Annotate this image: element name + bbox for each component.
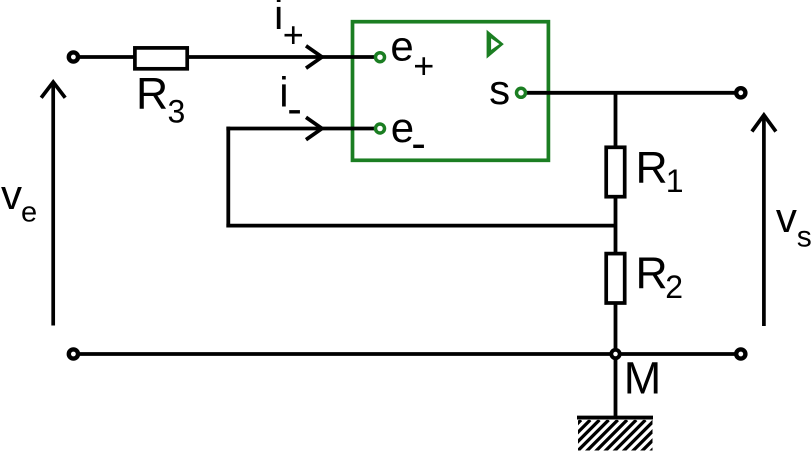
wire bottom rail	[73, 352, 740, 356]
svg-text:3: 3	[168, 93, 186, 129]
terminal output top	[736, 88, 745, 97]
resistor R3	[135, 48, 187, 69]
svg-text:+: +	[413, 45, 434, 86]
terminal input top	[69, 52, 78, 61]
arrow v_e	[41, 82, 65, 326]
arrowhead i-	[306, 117, 322, 139]
wire divider vertical	[614, 93, 618, 354]
label i-	[279, 69, 302, 134]
svg-text:M: M	[624, 352, 662, 403]
wire top rail input	[73, 55, 380, 59]
svg-text:-: -	[287, 85, 302, 134]
pin e-	[376, 124, 385, 133]
wire e- input	[226, 127, 380, 131]
svg-text:R: R	[636, 249, 668, 298]
label R2	[636, 249, 683, 305]
svg-text:-: -	[411, 119, 426, 168]
svg-text:+: +	[283, 14, 304, 55]
resistor R2	[606, 254, 625, 303]
label R3	[136, 70, 185, 130]
svg-text:v: v	[776, 194, 797, 241]
node M junction	[611, 350, 619, 358]
label e-	[391, 104, 426, 168]
svg-text:e: e	[21, 196, 37, 228]
ground	[549, 418, 682, 452]
svg-text:s: s	[797, 220, 812, 253]
svg-text:R: R	[136, 70, 168, 119]
label R1	[636, 144, 684, 199]
ground stem wire	[614, 354, 618, 417]
op-amp triangle symbol	[487, 30, 504, 59]
arrow v_s	[752, 115, 776, 326]
svg-text:R: R	[636, 144, 668, 193]
svg-text:2: 2	[665, 269, 683, 305]
label e+	[390, 23, 434, 86]
wire feedback horizontal	[226, 224, 615, 228]
pin s	[517, 88, 526, 97]
wire output rail	[521, 91, 741, 95]
arrowhead i+	[306, 46, 322, 68]
pin e+	[376, 53, 385, 62]
svg-text:e: e	[390, 23, 413, 70]
label v_e	[1, 171, 37, 228]
svg-text:v: v	[1, 171, 22, 218]
resistor R1	[606, 147, 625, 196]
label i+	[274, 0, 304, 55]
svg-text:1: 1	[666, 163, 684, 199]
op-amp U1 box	[353, 22, 549, 161]
terminal output bottom	[736, 349, 745, 358]
wire feedback vertical left	[226, 127, 230, 228]
svg-text:s: s	[489, 66, 510, 113]
label v_s	[776, 194, 812, 253]
terminal input bottom	[69, 349, 78, 358]
